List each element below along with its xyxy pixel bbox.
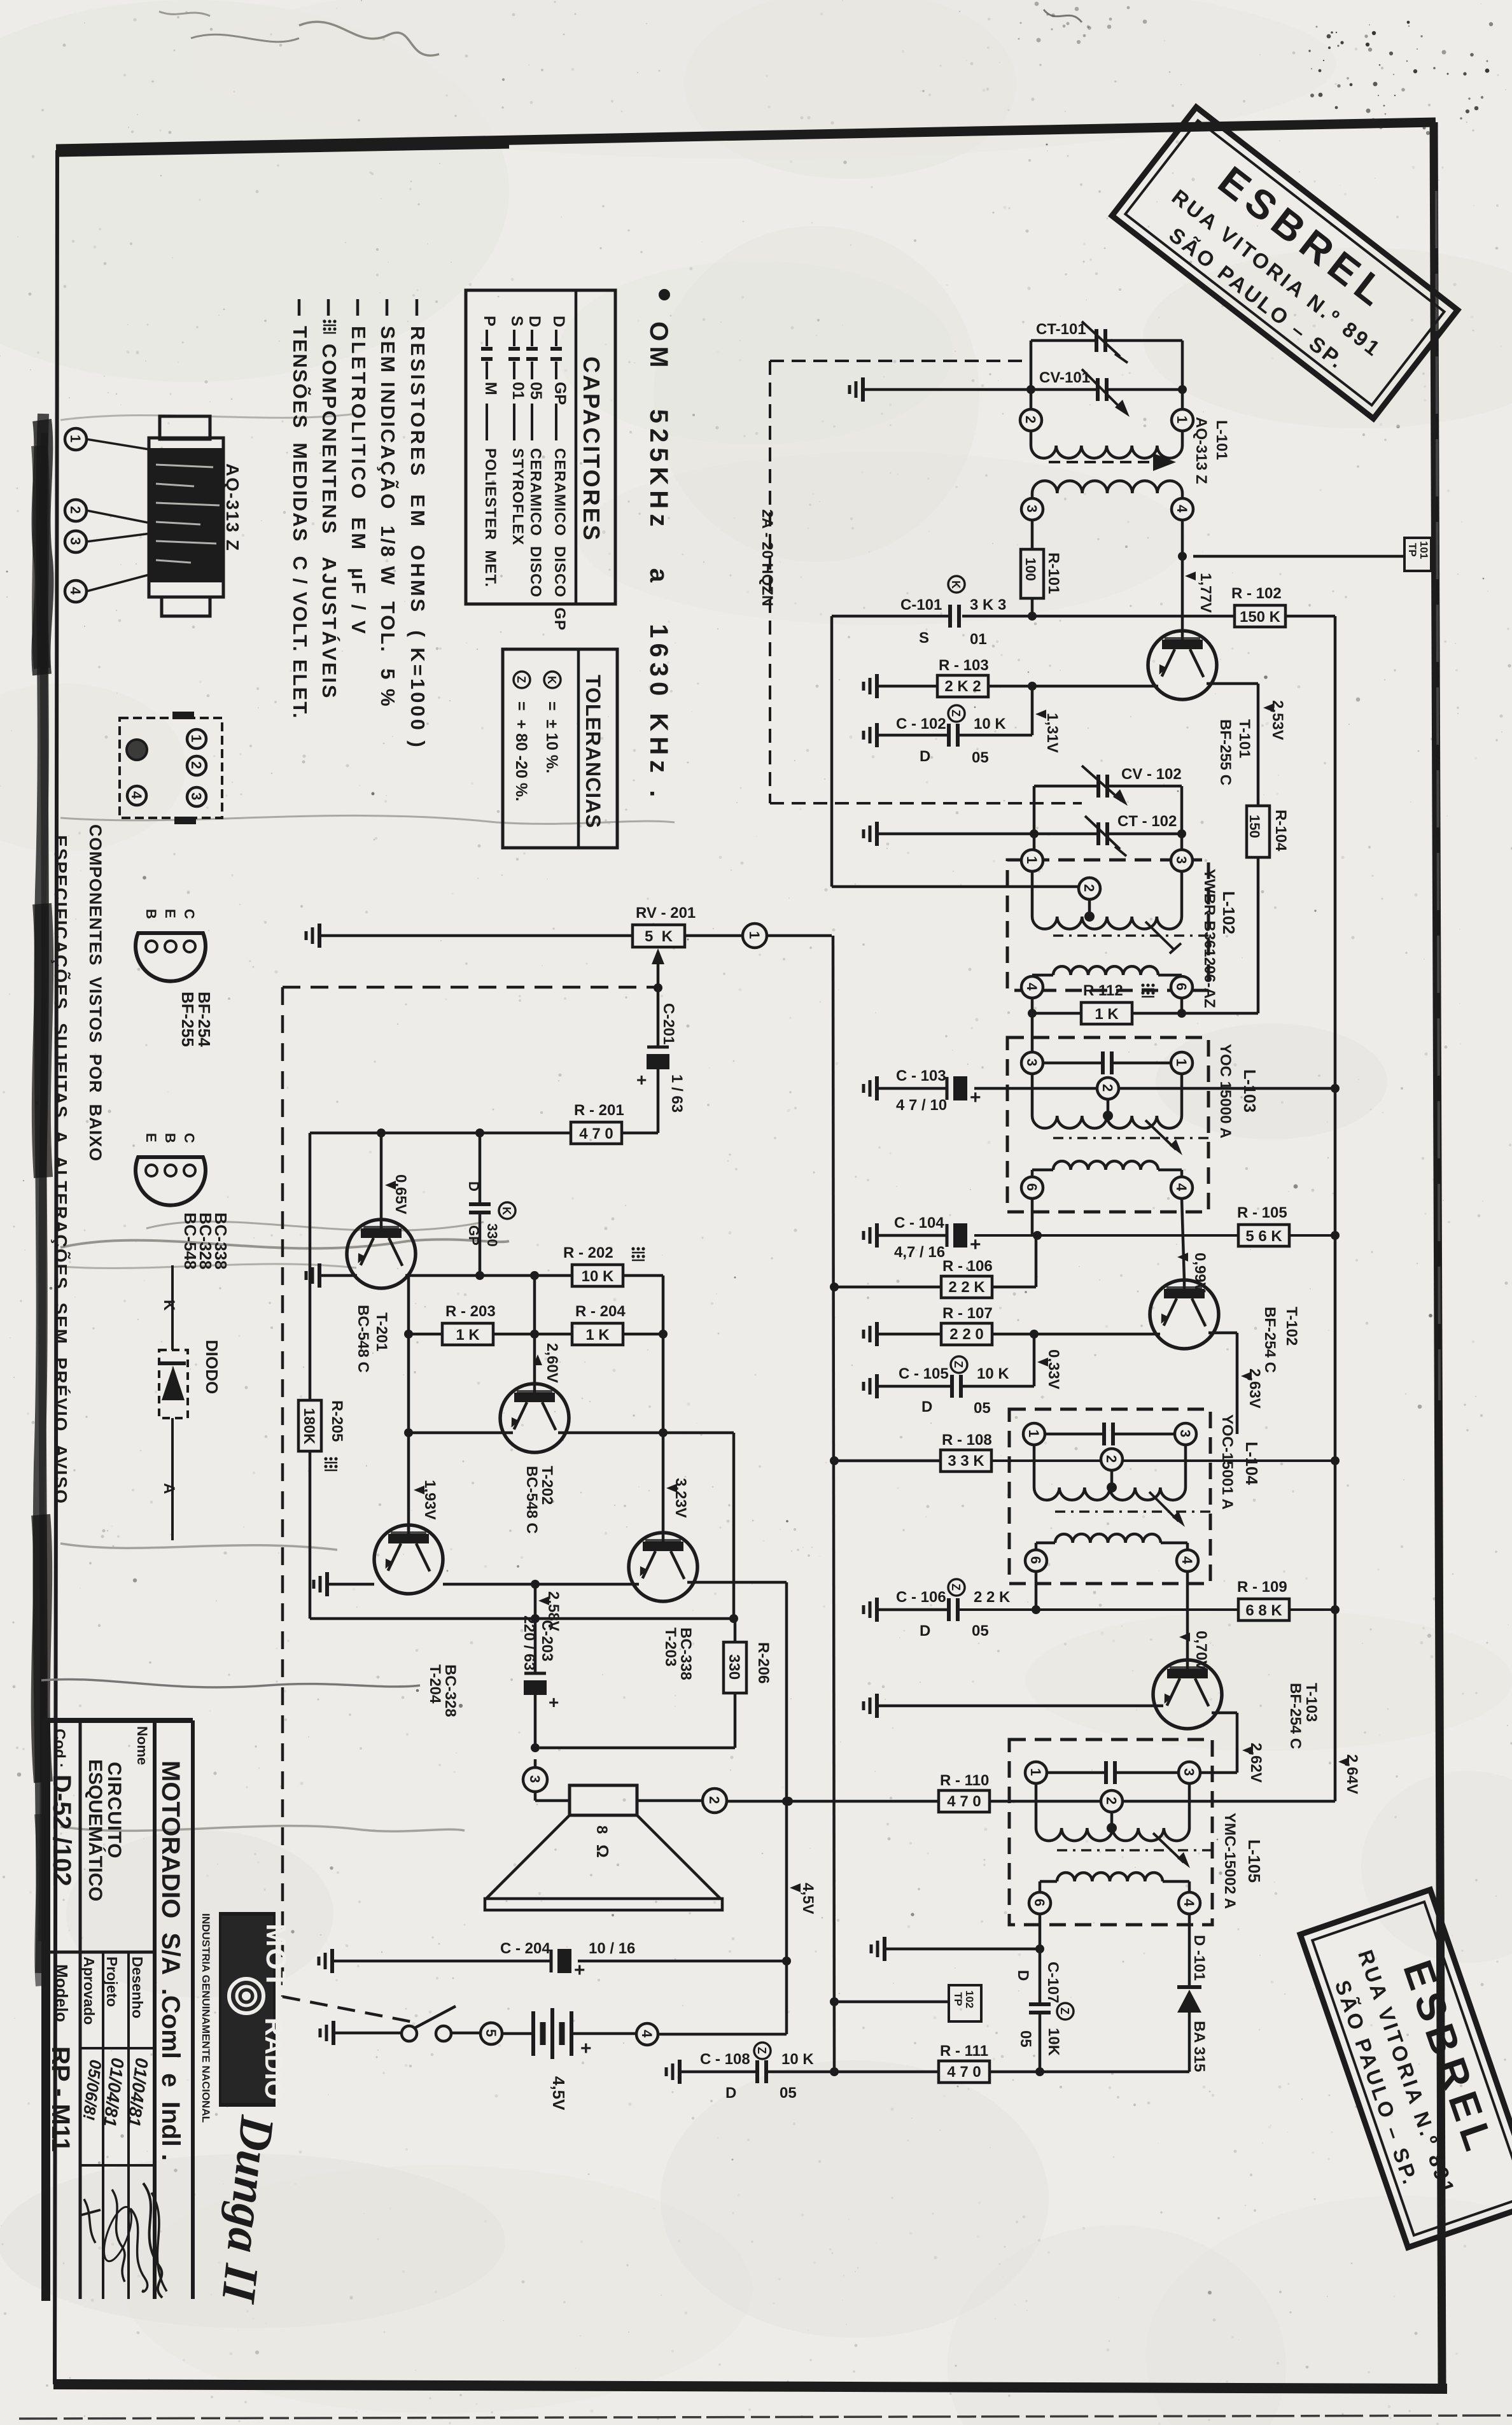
svg-text:1: 1 (188, 735, 204, 742)
svg-text:C-201: C-201 (660, 1003, 677, 1044)
transistor T-101 BF-255 C (1148, 631, 1217, 699)
svg-text:T-102: T-102 (1283, 1307, 1300, 1346)
svg-text:R - 204: R - 204 (575, 1303, 626, 1320)
node 3 (523, 1768, 547, 1792)
svg-text:3: 3 (1177, 1430, 1193, 1437)
svg-text:POLIESTER MET.: POLIESTER MET. (482, 448, 499, 587)
voltage 2,53V (1263, 703, 1274, 712)
ground (875, 1598, 879, 1622)
sheet left border line (55, 150, 57, 2384)
svg-text:= ± 10 %.: = ± 10 %. (543, 701, 561, 773)
svg-text:MOTORADIO S/A .Coml e Indl: MOTORADIO S/A .Coml e Indl . (157, 1761, 185, 2161)
svg-text:6: 6 (1024, 1183, 1040, 1191)
wire T-103 collector (1212, 1712, 1237, 1715)
svg-text:Z: Z (949, 710, 962, 717)
svg-text:Desenho: Desenho (129, 1957, 146, 2018)
svg-text:C-101: C-101 (900, 596, 942, 614)
voltage 2,63V (1241, 1372, 1252, 1381)
svg-text:1: 1 (1174, 416, 1190, 423)
svg-text:3 K 3: 3 K 3 (970, 596, 1006, 614)
svg-text:RESISTORES EM OHMS ( K=1000: RESISTORES EM OHMS ( K=1000 ) (407, 326, 429, 750)
voltage 3,23V (666, 1484, 677, 1493)
svg-text:1 K: 1 K (585, 1326, 610, 1344)
svg-text:A: A (160, 1483, 178, 1494)
svg-text:BC-338: BC-338 (211, 1212, 230, 1270)
potentiometer RV-201 (633, 925, 685, 947)
svg-text:CAPACITORES: CAPACITORES (578, 356, 605, 542)
svg-text:2,63V: 2,63V (1246, 1368, 1263, 1409)
wire tank sides (1030, 341, 1033, 409)
wire R-108 row (830, 1456, 839, 1465)
L-101 secondary winding (1032, 481, 1182, 493)
svg-text:Z: Z (755, 2047, 768, 2054)
node 4 (636, 2023, 658, 2045)
svg-text:STYROFLEX: STYROFLEX (509, 448, 526, 545)
voltage 2,58V (538, 1596, 549, 1605)
node 4 (1179, 1892, 1200, 1914)
C-203 leg (534, 1584, 537, 1673)
svg-text:05: 05 (780, 2084, 797, 2102)
svg-text:220 / 63: 220 / 63 (521, 1615, 538, 1671)
svg-text:2: 2 (1103, 1455, 1119, 1463)
svg-text:1,77V: 1,77V (1197, 573, 1214, 613)
svg-text:1: 1 (1026, 1430, 1042, 1437)
svg-text:+: + (636, 1070, 647, 1090)
wire R-110 row (725, 1800, 939, 1803)
svg-text:10 K: 10 K (781, 2051, 814, 2068)
node 2 (1101, 1449, 1123, 1470)
T-201 emitter leg down (407, 1276, 410, 1530)
node 1 (1171, 1052, 1193, 1074)
wire L-102 pin4 to L-103 pin3 (1031, 1013, 1034, 1052)
svg-text:AQ-313 Z: AQ-313 Z (1193, 417, 1210, 484)
svg-text:6: 6 (1028, 1556, 1044, 1564)
svg-text:R - 109: R - 109 (1237, 1578, 1287, 1596)
svg-text:4 7 0: 4 7 0 (947, 1793, 981, 1810)
svg-text:1 / 63: 1 / 63 (668, 1074, 685, 1113)
svg-text:C - 204: C - 204 (500, 1940, 550, 1957)
svg-text:3: 3 (1024, 1058, 1040, 1066)
ground (875, 1694, 879, 1718)
svg-text:YOC 15000 A: YOC 15000 A (1217, 1044, 1234, 1139)
R-203/R-204 row (409, 1333, 442, 1336)
svg-text:6: 6 (1032, 1899, 1047, 1906)
tuning gang dashed box (769, 361, 771, 803)
svg-text:2: 2 (1081, 884, 1097, 892)
svg-text:2: 2 (1100, 1084, 1116, 1092)
svg-text:R - 108: R - 108 (942, 1431, 992, 1449)
svg-text:+: + (580, 2038, 592, 2059)
main rail right (1334, 616, 1337, 1801)
svg-text:B: B (143, 909, 159, 919)
svg-text:4: 4 (1173, 1183, 1189, 1191)
svg-text:01: 01 (509, 382, 527, 400)
node 2 / output row (637, 1799, 703, 1803)
svg-text:R-104: R-104 (1272, 810, 1289, 852)
svg-text:330: 330 (484, 1223, 500, 1247)
svg-text:4,5V: 4,5V (799, 1883, 816, 1914)
svg-text:D -101: D -101 (1191, 1935, 1208, 1981)
ground (330, 1949, 334, 1973)
diode D-101 (1188, 1914, 1191, 1987)
resistor R-206 (724, 1642, 746, 1693)
svg-text:Ω: Ω (593, 1845, 612, 1858)
svg-text:CIRCUITO: CIRCUITO (104, 1762, 125, 1859)
node 1 (1023, 1423, 1045, 1445)
svg-text:05: 05 (972, 1622, 989, 1640)
T-201 base lead (380, 1133, 383, 1220)
svg-text:1: 1 (1024, 856, 1040, 864)
svg-text:E: E (143, 1133, 159, 1142)
wire pin4 down (1181, 520, 1184, 631)
long vertical AGC line (833, 936, 834, 2072)
svg-text:2: 2 (1023, 416, 1039, 423)
svg-text:D: D (725, 2084, 736, 2102)
switch S (402, 2026, 417, 2041)
svg-text:2 2 K: 2 2 K (948, 1279, 985, 1296)
svg-text:Z: Z (949, 1584, 962, 1591)
svg-text:B: B (162, 1133, 178, 1143)
ground (325, 1572, 329, 1596)
resistor R-104 (1247, 806, 1270, 857)
resistor R-203 (442, 1323, 493, 1345)
svg-text:R-205: R-205 (328, 1400, 346, 1442)
capacitor C-201 (654, 983, 662, 992)
node 6 (1025, 1550, 1047, 1571)
svg-text:YWBR-B361206-AZ: YWBR-B361206-AZ (1201, 869, 1218, 1008)
ground (318, 924, 321, 948)
capacitor C-102 (878, 734, 949, 737)
svg-text:D: D (1014, 1970, 1032, 1981)
ground (875, 822, 879, 846)
TP-102 (830, 1997, 839, 2006)
R-205 feedback leg (309, 1133, 312, 1400)
svg-text:D: D (550, 316, 568, 327)
svg-text:0,33V: 0,33V (1045, 1349, 1062, 1389)
svg-text:BC-548 C: BC-548 C (523, 1466, 540, 1534)
svg-text:Modelo: Modelo (52, 1964, 71, 2022)
svg-text:D: D (920, 1622, 930, 1640)
svg-text:1,31V: 1,31V (1044, 713, 1061, 753)
svg-text:05: 05 (974, 1400, 991, 1417)
trimmer CT-102 (878, 833, 1034, 836)
resistor R-102 (1235, 605, 1285, 627)
pencil scribbles (299, 22, 439, 55)
tuning arrow dashed (1049, 461, 1159, 463)
svg-text:CERAMICO DISCO: CERAMICO DISCO (527, 448, 544, 598)
svg-text:C - 105: C - 105 (899, 1365, 949, 1382)
svg-text:BA 315: BA 315 (1191, 2021, 1208, 2072)
transistor T-102 BF-254 C (1150, 1280, 1219, 1349)
svg-text:4 7 0: 4 7 0 (579, 1125, 613, 1142)
svg-text:R - 107: R - 107 (942, 1305, 993, 1322)
tolerancias table (503, 649, 617, 848)
svg-text:1: 1 (1028, 1768, 1044, 1776)
node 4 (1021, 976, 1043, 998)
svg-text:MOT: MOT (260, 1923, 291, 1990)
node 3 (1171, 850, 1193, 871)
resistor R - 106 (941, 1276, 992, 1298)
svg-text:ESPECIFICAÇÕES SUJEITAS A A: ESPECIFICAÇÕES SUJEITAS A ALTERAÇÕES SEM… (51, 835, 71, 1505)
node 3 (1179, 1762, 1200, 1783)
ground (875, 1076, 879, 1100)
node 1 (1021, 850, 1043, 871)
wire T-102 collector (1208, 1332, 1237, 1335)
svg-text:150 K: 150 K (1240, 608, 1281, 626)
T-204/T-203 emitter row (443, 1583, 639, 1586)
resistor R112 (1081, 1002, 1132, 1024)
ground (875, 1223, 879, 1248)
ground (332, 2021, 335, 2045)
resistor R-202 (572, 1265, 623, 1286)
svg-text:R 112: R 112 (1083, 982, 1123, 999)
voltage 2,62V (1242, 1746, 1253, 1755)
svg-text:4: 4 (129, 791, 144, 799)
node 4 (1177, 1550, 1198, 1571)
resistor R - 110 (939, 1790, 990, 1812)
svg-text:TOLERANCIAS: TOLERANCIAS (582, 675, 605, 829)
svg-text:L-101: L-101 (1213, 420, 1230, 460)
voltage 0,99V (1177, 1253, 1188, 1262)
voltage 1,93V (414, 1486, 424, 1494)
svg-text:S: S (508, 316, 526, 327)
svg-text:Z: Z (515, 676, 528, 683)
svg-text:5 K: 5 K (645, 928, 673, 945)
transistor T-103 BF-254 C (1153, 1660, 1222, 1729)
svg-text:01: 01 (970, 631, 987, 648)
svg-text:TENSÕES MEDIDAS C / VOLT. EL: TENSÕES MEDIDAS C / VOLT. ELET. (289, 326, 312, 719)
svg-text:1: 1 (67, 435, 83, 442)
node 4 (1172, 498, 1193, 520)
capacitores table (466, 290, 615, 604)
svg-text:BF-255 C: BF-255 C (1217, 719, 1234, 785)
audio emitter row 2251 (409, 1431, 513, 1435)
wire R112 row (1031, 998, 1034, 1013)
antenna coil pictorial AQ-313Z (160, 416, 210, 439)
voltage 4,5V (790, 1883, 801, 1892)
svg-text:K: K (160, 1300, 178, 1311)
node 2 (1020, 409, 1042, 431)
svg-text:C - 106: C - 106 (896, 1589, 946, 1606)
node 4 (1171, 1177, 1193, 1198)
svg-text:4: 4 (1024, 983, 1040, 991)
svg-text:2,53V: 2,53V (1269, 700, 1286, 740)
voltage 0,70V (1179, 1633, 1190, 1641)
svg-text:GP: GP (551, 382, 569, 405)
resistor R-105 (1238, 1225, 1289, 1246)
wire pin3 to R-101 (1031, 520, 1034, 549)
sheet bottom border bar (53, 2384, 1447, 2389)
IF transformer L-105 (1009, 1740, 1212, 1925)
node 1 (1025, 1762, 1047, 1783)
note sem indicacao (386, 299, 389, 316)
transistor BC-328 T-204 (374, 1525, 443, 1594)
svg-text:2 2 K: 2 2 K (974, 1589, 1011, 1606)
ground (861, 377, 865, 402)
svg-text:BF-254 C: BF-254 C (1287, 1683, 1304, 1749)
svg-text:2,62V: 2,62V (1247, 1743, 1264, 1783)
svg-text:3: 3 (1024, 505, 1040, 512)
T-201 collector row (405, 1274, 572, 1277)
svg-text:R - 203: R - 203 (445, 1303, 496, 1320)
svg-text:180K: 180K (300, 1408, 318, 1445)
svg-text:6: 6 (1173, 983, 1189, 990)
svg-text:T-103: T-103 (1303, 1683, 1320, 1722)
title block frame (41, 1719, 50, 2301)
node 6 (1029, 1892, 1051, 1914)
motoradio logo (219, 1912, 276, 2107)
ground (318, 1263, 321, 1288)
speaker (570, 1785, 637, 1815)
svg-text:C - 103: C - 103 (896, 1067, 946, 1085)
wire from bus to pin2 (830, 616, 834, 887)
svg-text:2: 2 (1103, 1797, 1119, 1804)
node 1 (187, 729, 206, 749)
svg-text:150: 150 (1247, 815, 1263, 838)
svg-text:L-105: L-105 (1245, 1839, 1264, 1883)
thin outer bottom line (19, 2415, 1512, 2419)
svg-text:2,60V: 2,60V (543, 1343, 561, 1383)
svg-text:R-206: R-206 (755, 1642, 772, 1683)
R-202 left branch down (533, 1276, 536, 1334)
svg-text:C - 104: C - 104 (894, 1214, 944, 1232)
svg-text:CERAMICO DISCO GP: CERAMICO DISCO GP (551, 448, 568, 631)
svg-text:10 / 16: 10 / 16 (589, 1940, 635, 1957)
svg-text:1 K: 1 K (1095, 1006, 1119, 1023)
sheet top border bar (56, 122, 1436, 149)
stamp ESBREL top (1112, 107, 1457, 418)
svg-text:E: E (162, 909, 178, 918)
svg-text:3: 3 (1173, 856, 1189, 864)
sheet right border bar (1434, 122, 1442, 2388)
svg-text:CV-101: CV-101 (1039, 369, 1090, 386)
svg-text:8: 8 (593, 1825, 610, 1834)
voltage 1,31V (1035, 710, 1046, 719)
transistor (347, 1220, 416, 1288)
svg-text:+: + (549, 1692, 559, 1712)
svg-text:4,7 / 16: 4,7 / 16 (894, 1244, 945, 1261)
svg-text:INDUSTRIA GENUINAMENTE NACIONA: INDUSTRIA GENUINAMENTE NACIONAL (200, 1913, 212, 2123)
node 4 (65, 580, 87, 602)
voltage 1,77V (1185, 572, 1196, 580)
node 3 (1021, 498, 1043, 520)
svg-text:+: + (574, 1960, 585, 1981)
node 2 (1097, 1078, 1119, 1099)
svg-text:3 3 K: 3 3 K (948, 1452, 984, 1470)
wire R-103 row (878, 685, 937, 688)
diodo pictorial (171, 1265, 174, 1350)
svg-text:10 K: 10 K (582, 1268, 614, 1285)
svg-text:CT-101: CT-101 (1036, 321, 1086, 338)
svg-text:1: 1 (1173, 1058, 1189, 1066)
wire R-106 row (830, 1283, 839, 1291)
IF transformer L-103 (1007, 1037, 1208, 1212)
ground (875, 723, 879, 747)
svg-text:BF-254 C: BF-254 C (1261, 1307, 1278, 1373)
svg-text:R - 201: R - 201 (574, 1102, 624, 1119)
svg-text:CT - 102: CT - 102 (1117, 813, 1177, 830)
TP-101 (1193, 555, 1404, 558)
resistor R-204 (572, 1323, 623, 1345)
svg-text:05: 05 (527, 382, 545, 400)
resistor R - 103 (937, 675, 988, 697)
voltage 2,60V (533, 1354, 542, 1365)
svg-text:Nome: Nome (134, 1726, 150, 1765)
node 1 (743, 924, 767, 948)
svg-text:10K: 10K (1045, 2028, 1062, 2056)
svg-text:C: C (181, 909, 197, 919)
left edge fold streak (42, 433, 45, 1941)
svg-text:2: 2 (188, 761, 204, 769)
resistor R-201 (571, 1122, 622, 1144)
svg-text:S: S (919, 629, 929, 647)
capacitor C-202 (479, 1133, 482, 1204)
node 6 (1021, 1177, 1043, 1198)
svg-text:D: D (466, 1181, 482, 1191)
wire L-103 pin6 down (1031, 1198, 1034, 1235)
note tensoes (298, 299, 301, 316)
svg-text:RADIO: RADIO (260, 2018, 288, 2100)
svg-text:05: 05 (1017, 2030, 1034, 2048)
svg-text:D-52 /102: D-52 /102 (48, 1775, 76, 1887)
voltage 2,64V (1338, 1757, 1349, 1766)
svg-text:BC-328: BC-328 (442, 1664, 459, 1717)
svg-text:YMC-15002 A: YMC-15002 A (1221, 1813, 1238, 1909)
svg-text:RV - 201: RV - 201 (636, 904, 696, 922)
svg-text:3: 3 (188, 792, 204, 800)
svg-text:T-201: T-201 (373, 1312, 390, 1351)
paper creases (60, 815, 675, 824)
svg-text:10 K: 10 K (977, 1365, 1009, 1382)
wire C-105 branch (1033, 1334, 1036, 1386)
svg-text:3: 3 (67, 537, 83, 545)
svg-text:L-103: L-103 (1240, 1069, 1259, 1113)
voltage 0,33V (1037, 1358, 1048, 1367)
svg-text:4: 4 (67, 587, 83, 595)
svg-text:L-104: L-104 (1242, 1442, 1261, 1485)
svg-text:2,64V: 2,64V (1343, 1754, 1361, 1794)
wire CV-101 row (864, 388, 1031, 391)
svg-text:+: + (970, 1087, 981, 1108)
pinout BF-255/BF-254 (136, 933, 206, 981)
ground (883, 1937, 886, 1961)
svg-text:K: K (545, 676, 558, 684)
svg-text:T-101: T-101 (1236, 719, 1253, 758)
svg-text:SEM INDICAÇÃO 1/8 W TOL. 5: SEM INDICAÇÃO 1/8 W TOL. 5 % (377, 326, 399, 708)
svg-text:R - 110: R - 110 (940, 1772, 989, 1789)
svg-text:1: 1 (746, 931, 762, 939)
svg-text:101: 101 (1418, 541, 1430, 559)
svg-text:2 2 0: 2 2 0 (949, 1326, 983, 1343)
svg-text:2: 2 (67, 506, 83, 514)
svg-text:4,5V: 4,5V (549, 2076, 568, 2111)
svg-text:C-203: C-203 (538, 1620, 556, 1661)
resistor R - 111 (939, 2061, 990, 2083)
svg-text:4 7 / 10: 4 7 / 10 (896, 1097, 947, 1114)
svg-text:330: 330 (725, 1654, 743, 1680)
wire bus 968 (832, 615, 950, 618)
svg-text:5: 5 (483, 2029, 499, 2037)
svg-text:Cod :: Cod : (51, 1729, 68, 1768)
R-201 row (310, 1132, 571, 1135)
svg-text:R-101: R-101 (1045, 552, 1062, 594)
svg-text:3,23V: 3,23V (672, 1478, 689, 1518)
svg-text:4: 4 (1181, 1899, 1197, 1907)
svg-text:D: D (526, 316, 543, 327)
svg-text:CV - 102: CV - 102 (1121, 766, 1182, 783)
ground (875, 1374, 879, 1398)
svg-text:= + 80 -20 %.: = + 80 -20 %. (512, 701, 530, 801)
